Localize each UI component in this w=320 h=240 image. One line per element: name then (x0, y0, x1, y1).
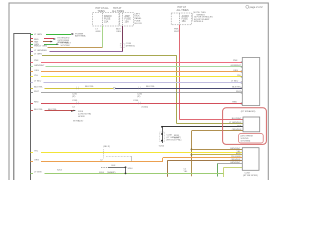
wire: RED arrow row (34, 37, 70, 44)
label HOT AT ALL TIMES (F1) (96, 7, 110, 13)
svg-text:BLK/YEL: BLK/YEL (48, 109, 58, 111)
wire PNK speaker row (34, 60, 243, 62)
svg-text:GRN: GRN (34, 44, 39, 46)
radio pin stubs (31, 35, 34, 174)
svg-text:WHT: WHT (34, 91, 40, 93)
svg-text:ALL TIMES: ALL TIMES (112, 10, 124, 13)
svg-text:MODELS: MODELS (194, 21, 204, 23)
svg-text:(W/AMP): (W/AMP) (107, 171, 116, 174)
wire: TAN arrow row (34, 41, 53, 44)
right box pin ticks (241, 62, 242, 105)
grey wire into box pin6 (218, 164, 243, 177)
svg-text:BLK/YEL: BLK/YEL (232, 87, 242, 89)
svg-text:LT GRN: LT GRN (34, 172, 42, 174)
svg-text:LT GRN: LT GRN (34, 54, 42, 56)
svg-text:ORG: ORG (116, 31, 121, 33)
right speaker box (241, 58, 260, 114)
svg-text:BLK: BLK (237, 125, 242, 127)
wire ORG bottom row with jog (34, 158, 242, 162)
connector C2 on maroon wire (120, 43, 135, 47)
wire: LT GRN power antenna (34, 33, 86, 38)
svg-text:S204: S204 (128, 168, 134, 170)
svg-text:LT GRN/RED: LT GRN/RED (34, 50, 47, 52)
svg-text:BLK/WHT: BLK/WHT (232, 118, 242, 120)
wire BLK/YEL olive-navy row (34, 86, 243, 98)
svg-text:WHT: WHT (236, 91, 242, 93)
olive vertical (176, 55, 178, 123)
svg-text:BLOCK: BLOCK (135, 23, 143, 25)
svg-text:(IP/ENG): (IP/ENG) (126, 46, 135, 48)
fuse F1 box (93, 13, 120, 26)
svg-text:ORG: ORG (233, 70, 238, 72)
wire: purple row to radio (34, 50, 123, 52)
fuse F3 box (audio fuse) (171, 13, 191, 25)
svg-text:GRN: GRN (96, 31, 101, 33)
svg-text:BLK/YEL: BLK/YEL (34, 86, 44, 88)
label HOT AT ALL TIMES (F3) (177, 6, 189, 12)
svg-text:GRN/WHT: GRN/WHT (231, 65, 242, 67)
svg-text:15A: 15A (182, 20, 187, 23)
fuse F2 box (120, 13, 134, 26)
svg-text:BLK/YEL: BLK/YEL (85, 86, 95, 88)
svg-text:PNK: PNK (34, 60, 39, 62)
wire: maroon drop from fuse F2 (116, 26, 123, 52)
svg-text:PNK: PNK (233, 60, 238, 62)
svg-text:ALL TIMES: ALL TIMES (177, 9, 189, 12)
page border (9, 3, 268, 193)
amp box (229, 117, 260, 132)
wire YEL bottom row (34, 151, 242, 153)
wire: GRN arrow row (34, 42, 71, 47)
svg-text:15A: 15A (104, 20, 109, 23)
svg-text:SYSTEM: SYSTEM (61, 45, 70, 47)
svg-text:AUDIO: AUDIO (182, 15, 189, 18)
svg-text:RED: RED (34, 102, 39, 104)
wire RED long row (34, 100, 243, 109)
svg-text:RED: RED (232, 102, 237, 104)
svg-text:YEL/GRN: YEL/GRN (231, 156, 241, 158)
svg-text:C246: C246 (133, 100, 139, 102)
svg-text:BRN/WHT: BRN/WHT (230, 148, 241, 150)
svg-text:W/ RADIO: W/ RADIO (73, 119, 84, 122)
svg-text:(JBL R): (JBL R) (103, 146, 110, 148)
svg-text:LT GRN: LT GRN (34, 34, 42, 36)
khaki wire bundle S-splice (174, 131, 243, 177)
note: fuse block location (135, 13, 143, 25)
svg-text:(IP): (IP) (72, 96, 76, 98)
wire ORG row (34, 70, 243, 72)
svg-text:page 2 of 2: page 2 of 2 (250, 5, 264, 9)
svg-text:(RT RR SPKR): (RT RR SPKR) (243, 175, 258, 177)
stamp page 2 of 2 (246, 5, 263, 9)
wire: lt green drop from fuse F1 (96, 26, 103, 48)
svg-text:SYSTEM): SYSTEM) (241, 141, 251, 143)
red note box (239, 134, 264, 143)
svg-text:(IP): (IP) (137, 96, 141, 98)
brown wire into box pin5 (168, 160, 243, 177)
wire: olive long row (34, 54, 177, 56)
note block legend (192, 12, 213, 23)
wire LT BLU lavender row (34, 81, 243, 83)
wire: pink from fuse F3 to amp (174, 25, 243, 120)
wire YEL row (34, 75, 243, 77)
svg-text:(RT SPEAKER): (RT SPEAKER) (241, 110, 256, 113)
wire: tan row to fuse F1 (34, 46, 102, 48)
svg-text:ORG/BLK: ORG/BLK (232, 129, 242, 131)
svg-text:15A: 15A (125, 20, 130, 23)
red highlight box (223, 108, 267, 145)
svg-text:ORG/BLK: ORG/BLK (231, 159, 241, 161)
wire BLK/YEL horn arrow row (34, 109, 91, 118)
svg-text:BLK/YEL: BLK/YEL (34, 109, 44, 111)
wire GRN/WHT row (34, 65, 243, 67)
svg-text:G200: G200 (159, 145, 165, 147)
svg-text:LT BLU: LT BLU (34, 81, 42, 83)
svg-text:WHT: WHT (174, 138, 179, 140)
svg-text:LT GRN/BLK: LT GRN/BLK (229, 122, 242, 124)
BLK ground wire to amp (159, 126, 243, 147)
svg-text:ORG: ORG (34, 160, 39, 162)
svg-text:TAN: TAN (34, 41, 39, 44)
wire LT GRN bottom row (34, 169, 224, 174)
svg-text:S204: S204 (57, 169, 63, 171)
wire WHT row (34, 91, 243, 93)
svg-text:(S204): (S204) (142, 106, 149, 108)
svg-text:ORG: ORG (34, 70, 39, 72)
svg-text:BRN: BRN (236, 153, 241, 155)
floating label (73, 119, 84, 122)
svg-text:BLK/YEL: BLK/YEL (146, 86, 156, 88)
svg-text:TIMES: TIMES (98, 10, 106, 13)
svg-text:S204: S204 (99, 172, 105, 174)
label HOT AT ALL TIMES (F2) (112, 7, 124, 13)
radio U1 (component box) (14, 34, 31, 184)
svg-text:BLK: BLK (112, 165, 117, 167)
dashed option wire cluster (JBL R) (99, 146, 133, 174)
svg-text:LT BLU: LT BLU (231, 81, 239, 83)
svg-text:C245: C245 (72, 100, 78, 102)
olive into amp pin2 (177, 123, 243, 125)
svg-text:ANTENNA: ANTENNA (75, 35, 86, 38)
svg-text:HORN: HORN (78, 116, 85, 118)
svg-text:GRN/WHT: GRN/WHT (34, 65, 45, 67)
lt green wire into box pin7 (224, 168, 243, 178)
rear speaker box (230, 148, 259, 177)
svg-text:WHT: WHT (174, 31, 180, 33)
svg-text:GRN/WHT: GRN/WHT (230, 162, 241, 164)
